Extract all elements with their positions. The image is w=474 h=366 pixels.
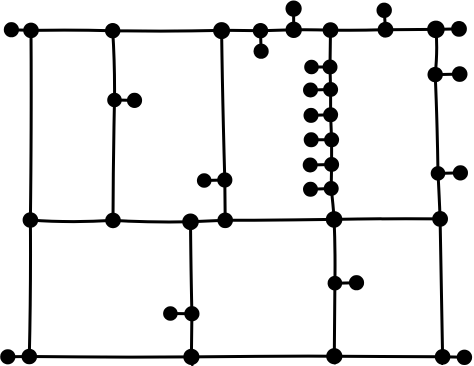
wire stub top-left pendant [11,28,31,32]
wire bottom edge [29,355,442,359]
wire stub ladder rung 5 [310,163,331,167]
node pendant left of L3 [304,108,319,123]
wire stub pendant left of node D2 [204,179,225,183]
node pendant left of D2 [197,173,212,188]
node L3 ladder [323,107,338,122]
node L1 ladder [323,60,338,75]
node pendant bottom-left [0,349,15,364]
node T6 ladder top [323,22,339,38]
node pendant right of R4 [457,350,472,365]
wire stub pendant right of node L7 [335,281,357,285]
node pendant below T4 [254,44,269,59]
node pendant left of L1 [304,60,319,75]
node T4 [253,23,268,38]
wire ladder column x=331 [330,30,335,363]
node pendant top-left [4,22,19,37]
node R3 junction middle-right [432,211,448,227]
node L7 below middle [328,276,343,291]
node R4 corner bottom-right [435,349,451,365]
node M3 [182,214,199,231]
node T8 corner top-right [427,21,445,39]
node pendant left of L4 [304,132,319,147]
wire stub pendant right of corner T8 [436,27,459,31]
wire stub bottom-left pendant [8,355,30,358]
wire stub ladder rung 4 [311,138,331,141]
wire stub pendant above node T5 [292,9,295,30]
wire vertical column x=113 [113,31,115,221]
node pendant right of R1 [452,66,468,82]
wire stub ladder rung 1 [312,66,331,69]
wire left edge [29,30,31,356]
wire middle horizontal [30,219,440,222]
wire stub pendant right of corner R4 [443,355,465,359]
wire stub pendant left of node B2p [170,312,192,315]
node L6 ladder [324,181,339,196]
node pendant above T5 [286,1,302,17]
wire stub pendant right of node D1 [115,99,135,102]
wire top edge [31,29,436,31]
node D1 on column x=113 [107,93,122,108]
node B3 [326,348,342,364]
node T2 [105,23,120,38]
node T1 corner top-left [23,23,39,39]
node M5 junction [326,211,343,228]
node T3 [213,22,230,39]
node pendant left of L6 [303,182,318,197]
node R2 [431,166,446,181]
node pendant above T7 [377,3,392,18]
wire right edge [435,29,442,363]
node pendant right of L7 [349,275,364,290]
wire stub ladder rung 2 [311,88,331,92]
wire stub pendant right of node R2 [438,171,460,175]
wire stub ladder rung 3 [311,113,331,117]
node M4 [217,213,233,229]
node M1 junction middle-left [23,212,39,228]
wire stub ladder rung 6 [311,187,332,191]
wire vertical column x=191 [191,222,193,365]
node pendant right of T8 [451,21,467,37]
node L4 ladder [324,132,339,147]
wire stub pendant right of node R1 [435,73,460,77]
node pendant right of R2 [453,165,468,180]
node T5 [286,22,302,38]
node pendant left of B2p [163,306,178,321]
node L2 ladder [323,82,338,97]
wire stub pendant above node T7 [384,10,385,29]
node T7 [378,22,394,38]
node R1 [428,67,443,82]
node M2 [105,213,121,229]
node pendant right of D1 [127,93,142,108]
wire stub pendant below node T4 [259,31,263,52]
node B2p on column x=191 [184,306,199,321]
node D2 on column x=222 [217,172,232,187]
node pendant left of L2 [303,83,318,98]
node B1 corner bottom-left [22,349,38,365]
wire vertical column x=222 [222,30,226,220]
node B2 [183,349,199,365]
node L5 ladder [324,157,339,172]
node pendant left of L5 [303,158,318,173]
